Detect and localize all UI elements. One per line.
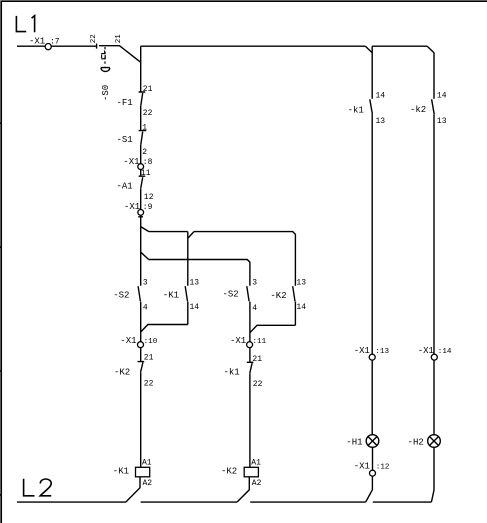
svg-text:21: 21 bbox=[252, 355, 262, 364]
coil K1 bbox=[136, 467, 150, 477]
svg-text:22: 22 bbox=[143, 109, 153, 118]
svg-text:22: 22 bbox=[144, 379, 154, 388]
wire main vertical with tick below X1:9 bbox=[138, 215, 143, 285]
wire L2 rail segment 1 bbox=[17, 501, 126, 503]
svg-text:13: 13 bbox=[376, 117, 386, 126]
svg-text:-K1: -K1 bbox=[163, 290, 179, 300]
svg-text:-K2: -K2 bbox=[270, 291, 286, 301]
svg-text:-X1: -X1 bbox=[230, 336, 246, 346]
terminal X1:11 bbox=[247, 342, 253, 348]
svg-text:-X1: -X1 bbox=[123, 157, 139, 167]
wire column 3 vertical top bbox=[371, 46, 373, 99]
svg-text:4: 4 bbox=[252, 304, 257, 313]
border fold tick marks bbox=[0, 123, 2, 495]
svg-text:14: 14 bbox=[437, 92, 447, 101]
wire K1 coil to L2 rail bbox=[126, 477, 140, 502]
contact F1 NC (thermal relay) bbox=[139, 92, 146, 131]
terminal X1:12 bbox=[372, 447, 374, 470]
terminal X1:14 bbox=[431, 354, 437, 360]
terminal X1:8 bbox=[138, 164, 144, 170]
wire L1 rail bbox=[17, 45, 96, 47]
svg-text:13: 13 bbox=[190, 278, 200, 287]
wire top rail bbox=[141, 45, 366, 47]
wire L2 rail segment 2 bbox=[141, 501, 238, 503]
svg-text::11: :11 bbox=[253, 338, 267, 346]
wire chamfer junction to column 3 bbox=[365, 46, 372, 53]
svg-text:-K2: -K2 bbox=[221, 467, 237, 477]
svg-text:-k1: -k1 bbox=[348, 105, 364, 115]
lamp H1 bbox=[366, 435, 379, 448]
svg-text:13: 13 bbox=[296, 279, 306, 288]
svg-text:-X1: -X1 bbox=[29, 37, 45, 47]
contact K1 NC (interlock right) bbox=[247, 348, 254, 468]
terminal X1:10 bbox=[138, 342, 144, 348]
wire column 4 vertical top bbox=[433, 53, 435, 99]
svg-text:-S0: -S0 bbox=[101, 85, 111, 101]
svg-text:-X1: -X1 bbox=[418, 346, 434, 356]
svg-text:-K1: -K1 bbox=[113, 467, 129, 477]
svg-text:1: 1 bbox=[142, 124, 147, 133]
contact K1 NO (seal-in) bbox=[185, 286, 188, 324]
node L2 label bbox=[24, 479, 52, 496]
svg-text:-X1: -X1 bbox=[124, 202, 140, 212]
wire K1 column top with chamfer bbox=[188, 232, 194, 286]
svg-text:21: 21 bbox=[143, 85, 153, 94]
wire column 4 to L2 rail bbox=[431, 447, 434, 502]
wire main vertical top bbox=[140, 46, 142, 92]
lamp H2 bbox=[428, 435, 441, 448]
wire merge right rung bbox=[250, 325, 296, 332]
svg-text:12: 12 bbox=[144, 193, 154, 202]
svg-text::13: :13 bbox=[375, 348, 389, 356]
contact S2a NO bbox=[138, 286, 141, 342]
wire branch 2 horizontal to S2b column bbox=[149, 260, 250, 286]
svg-text:-H1: -H1 bbox=[346, 437, 362, 447]
node L1 label bbox=[16, 16, 34, 33]
contact K1 NO aux (lamp H1 branch) bbox=[370, 99, 373, 354]
svg-text:-S1: -S1 bbox=[117, 135, 133, 145]
svg-text:A1: A1 bbox=[251, 458, 261, 467]
wire column 4 to lamp bbox=[433, 360, 435, 435]
svg-text:-X1: -X1 bbox=[354, 462, 370, 472]
wire L2 rail segment 4 bbox=[373, 501, 432, 503]
wire column 3 to lamp bbox=[371, 360, 373, 435]
svg-text:2: 2 bbox=[142, 148, 147, 157]
contact S1 NC bbox=[139, 131, 147, 164]
svg-text:14: 14 bbox=[296, 303, 306, 312]
coil K2 bbox=[244, 467, 258, 477]
svg-text:4: 4 bbox=[143, 303, 148, 312]
svg-text::9: :9 bbox=[143, 203, 153, 212]
pushbutton S0 (emergency stop, NC, horizontal) bbox=[96, 44, 98, 49]
svg-text:3: 3 bbox=[252, 279, 257, 288]
svg-text:21: 21 bbox=[115, 34, 123, 44]
svg-text:A1: A1 bbox=[142, 458, 152, 467]
svg-text::14: :14 bbox=[438, 348, 452, 356]
svg-text:3: 3 bbox=[143, 278, 148, 287]
wire chamfer to column 4 bbox=[427, 46, 434, 53]
contact K2 NO (seal-in right) bbox=[293, 286, 296, 325]
svg-text:-k2: -k2 bbox=[410, 105, 426, 115]
svg-text::8: :8 bbox=[143, 158, 153, 167]
svg-text:-K2: -K2 bbox=[114, 368, 130, 378]
svg-text:-X1: -X1 bbox=[120, 336, 136, 346]
svg-text:-S2: -S2 bbox=[223, 290, 239, 300]
svg-text:14: 14 bbox=[376, 92, 386, 101]
contact K2 NC (interlock left) bbox=[138, 348, 145, 468]
wire L2 rail segment 3 bbox=[250, 501, 366, 503]
terminal X1:13 bbox=[369, 354, 375, 360]
wire top rail right part bbox=[372, 45, 427, 47]
svg-text:14: 14 bbox=[190, 303, 200, 312]
svg-text:11: 11 bbox=[141, 169, 151, 178]
wire branch 2 chamfer from main bbox=[141, 252, 149, 259]
terminal X1:9 bbox=[138, 210, 144, 216]
terminal X1:7 bbox=[45, 44, 51, 50]
svg-text:-S2: -S2 bbox=[113, 290, 129, 300]
wire column 3 to L2 rail bbox=[366, 476, 373, 502]
svg-text::12: :12 bbox=[376, 464, 390, 472]
svg-text:A2: A2 bbox=[143, 479, 153, 488]
wire branch 1 chamfer from main bbox=[141, 227, 149, 232]
svg-text:-X1: -X1 bbox=[354, 346, 370, 356]
svg-text:22: 22 bbox=[253, 380, 263, 389]
svg-text:22: 22 bbox=[90, 34, 98, 43]
svg-text:A2: A2 bbox=[252, 479, 262, 488]
svg-text:-k1: -k1 bbox=[224, 368, 240, 378]
svg-text::10: :10 bbox=[144, 338, 158, 346]
svg-text:13: 13 bbox=[437, 117, 447, 126]
contact A1 NC bbox=[139, 170, 146, 210]
svg-text:-A1: -A1 bbox=[117, 182, 133, 192]
contact S2b NO bbox=[247, 286, 250, 342]
contact K2 NO aux (lamp H2 branch) bbox=[432, 99, 435, 354]
wire K2 coil to L2 rail bbox=[237, 477, 249, 502]
svg-text::7: :7 bbox=[50, 38, 60, 47]
svg-text:21: 21 bbox=[144, 354, 154, 363]
svg-text:-H2: -H2 bbox=[408, 437, 424, 447]
wire branch 1 horizontal to K1 column bbox=[149, 231, 188, 233]
svg-text:-F1: -F1 bbox=[117, 98, 133, 108]
wire branch 1 horizontal to K2 column bbox=[194, 232, 296, 286]
wire merge left rung bbox=[141, 325, 188, 332]
